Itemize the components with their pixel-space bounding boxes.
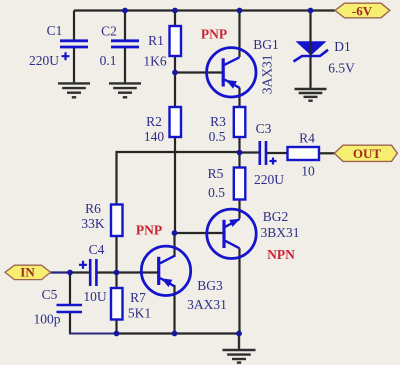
svg-text:3BX31: 3BX31 [260, 225, 299, 240]
svg-text:33K: 33K [81, 216, 105, 231]
svg-text:R4: R4 [299, 131, 315, 146]
wire R1 bottom to R2 top [174, 56, 176, 107]
svg-text:220U: 220U [254, 172, 284, 187]
svg-text:R7: R7 [130, 290, 146, 305]
junction bottom rail BG3 [172, 331, 178, 337]
junction bottom rail ground [236, 331, 242, 337]
wire IN to C4 node (blue net) [50, 271, 70, 273]
svg-text:BG3: BG3 [197, 278, 223, 293]
transistor BG1 (PNP) [201, 27, 279, 98]
wire BG2 base [175, 232, 225, 234]
port IN [5, 264, 51, 279]
junction BG1 base node [172, 70, 178, 76]
junction top rail BG1 [237, 8, 243, 14]
diode D1 (zener) [294, 39, 356, 76]
svg-text:140: 140 [144, 129, 165, 144]
resistor R2 [144, 107, 181, 144]
ground main [223, 334, 256, 363]
junction top rail C2 [122, 8, 128, 14]
svg-text:C1: C1 [47, 23, 63, 38]
svg-text:NPN: NPN [267, 247, 295, 262]
wire R1 top lead [174, 11, 176, 27]
junction top rail R1 [172, 8, 178, 14]
svg-text:R3: R3 [210, 114, 226, 129]
svg-text:C2: C2 [101, 24, 117, 39]
svg-text:3AX31: 3AX31 [187, 297, 227, 312]
wire C5 bottom lead [69, 312, 71, 334]
svg-text:0.5: 0.5 [208, 185, 225, 200]
junction output node [237, 150, 243, 156]
wire BG1 base [175, 71, 223, 73]
svg-text:OUT: OUT [353, 146, 382, 161]
wire bottom ground rail [117, 332, 240, 334]
svg-text:10: 10 [301, 164, 315, 179]
svg-text:-6V: -6V [352, 3, 373, 18]
wire BG3 base to C4 [97, 271, 159, 273]
resistor R7 [111, 288, 151, 321]
capacitor C1 [29, 23, 88, 68]
transistor BG2 (NPN) [207, 209, 300, 262]
ground for D1 [295, 89, 327, 101]
wire BG1 emitter to R3 [238, 88, 240, 108]
wire D1 bottom lead [309, 56, 311, 90]
svg-text:IN: IN [20, 264, 35, 279]
port OUT [334, 145, 397, 161]
svg-text:3AX31: 3AX31 [260, 55, 275, 95]
svg-text:PNP: PNP [136, 223, 162, 238]
svg-text:0.5: 0.5 [209, 129, 226, 144]
wire top -6V rail [74, 9, 335, 11]
svg-text:100p: 100p [34, 312, 61, 327]
wire BG3 emitter [173, 285, 175, 334]
wire R5 to BG2 emitter [238, 200, 240, 219]
svg-text:1K6: 1K6 [143, 54, 166, 69]
wire C3 left lead [240, 151, 259, 153]
capacitor C3 [254, 121, 284, 187]
wire node to C4 [70, 271, 90, 273]
wire D1 through lead [309, 41, 311, 56]
svg-text:C4: C4 [89, 242, 105, 257]
capacitor C2 [100, 24, 139, 69]
wire R4 to OUT [319, 152, 335, 154]
wire R2 bottom to BG2 base node [174, 137, 176, 233]
wire BG3 collector [173, 233, 175, 257]
resistor R1 [143, 26, 181, 69]
power port -6V [335, 3, 390, 18]
svg-text:C5: C5 [42, 287, 58, 302]
transistor BG3 (PNP) [136, 223, 227, 313]
junction top rail D1 [308, 8, 314, 14]
wire BG1 collector to rail [238, 11, 240, 58]
resistor R3 [209, 107, 246, 144]
svg-text:R5: R5 [208, 166, 224, 181]
svg-text:C3: C3 [256, 121, 272, 136]
svg-text:R1: R1 [148, 33, 164, 48]
wire D1 top lead [309, 11, 311, 42]
svg-text:5K1: 5K1 [128, 306, 151, 321]
junction BG2 base node [172, 230, 178, 236]
wire C2 top lead [124, 11, 126, 42]
svg-text:10U: 10U [83, 289, 107, 304]
wire C5 top lead [69, 273, 71, 305]
svg-text:BG1: BG1 [253, 37, 279, 52]
wire R5 top lead [238, 153, 240, 168]
svg-text:6.5V: 6.5V [328, 61, 355, 76]
svg-text:D1: D1 [334, 39, 351, 54]
wire R7 bottom lead [115, 320, 117, 334]
wire R7 top lead [115, 273, 117, 289]
wire BG2 collector to ground rail [238, 248, 240, 333]
svg-text:PNP: PNP [201, 27, 227, 42]
wire feedback output to R6 [117, 152, 240, 205]
ground for C1 [58, 83, 90, 97]
svg-text:R2: R2 [146, 114, 162, 129]
wire C1 top lead [73, 11, 75, 42]
resistor R4 [288, 131, 320, 179]
resistor R5 [208, 166, 246, 200]
resistor R6 [81, 201, 122, 236]
capacitor C4 [79, 242, 107, 304]
svg-text:BG2: BG2 [263, 209, 289, 224]
wire C1 bottom lead [73, 47, 75, 84]
junction bottom rail R7 [114, 331, 120, 337]
junction IN node [67, 270, 73, 276]
svg-text:R6: R6 [85, 201, 101, 216]
junction R6 R7 base node [114, 270, 120, 276]
wire C3 right lead [267, 152, 288, 154]
svg-text:220U: 220U [29, 53, 59, 68]
wire C2 bottom lead [124, 47, 126, 84]
ground for C2 [109, 83, 141, 97]
capacitor C5 [34, 287, 83, 327]
wire R3 bottom lead [238, 137, 240, 153]
wire C5 to R7 node (blue net) [69, 333, 117, 335]
svg-text:0.1: 0.1 [100, 53, 117, 68]
wire R6 bottom lead [115, 236, 117, 273]
